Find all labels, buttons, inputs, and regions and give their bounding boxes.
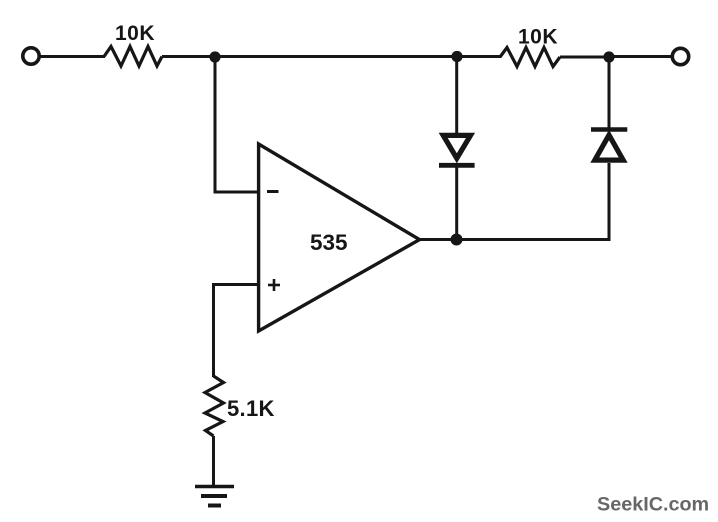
svg-text:SeekIC.com: SeekIC.com bbox=[597, 494, 709, 516]
svg-text:5.1K: 5.1K bbox=[227, 396, 275, 421]
plus sign (non-inverting input) bbox=[268, 279, 280, 291]
resistor R3 (5.1K, vertical) bbox=[205, 376, 224, 436]
wire: input terminal to resistor R1 bbox=[40, 55, 105, 58]
wire: node C down to diode D2 bbox=[608, 57, 611, 130]
wire: diode D1 to node D bbox=[455, 165, 458, 240]
wire: R2 to node C bbox=[560, 56, 609, 59]
node A (junction dot, top left) bbox=[209, 51, 220, 62]
resistor R2 (10K, horizontal) bbox=[500, 48, 560, 67]
wire: node D to right corner under D2 bbox=[457, 163, 610, 240]
svg-text:535: 535 bbox=[310, 230, 348, 255]
diode D2 (pointing up) bbox=[591, 130, 627, 161]
wire: R3 to ground bbox=[212, 436, 215, 486]
diode D1 (pointing down) bbox=[439, 135, 475, 165]
wire: node C to output terminal bbox=[609, 55, 672, 58]
svg-text:10K: 10K bbox=[518, 26, 558, 49]
wire: op-amp output to node D bbox=[420, 238, 457, 241]
wire: node A down to inverting input bbox=[215, 57, 258, 193]
wire: non-inverting input left and down bbox=[214, 285, 259, 378]
wire: node B down to diode D1 bbox=[455, 57, 458, 135]
wire: node B to resistor R2 bbox=[457, 55, 501, 58]
op-amp U1 triangle bbox=[259, 144, 420, 331]
input terminal (left) bbox=[23, 48, 39, 64]
minus sign (inverting input) bbox=[267, 190, 279, 193]
node B (junction dot) bbox=[451, 51, 462, 62]
output terminal (right) bbox=[672, 48, 688, 64]
wire: R1 to node A bbox=[162, 55, 215, 58]
ground bbox=[195, 487, 234, 506]
svg-text:10K: 10K bbox=[115, 22, 155, 45]
wire: node A to node B (top horizontal) bbox=[215, 55, 457, 58]
node D (junction dot at output) bbox=[451, 234, 463, 246]
resistor R1 (10K, horizontal) bbox=[104, 47, 162, 67]
node C (junction dot, top right) bbox=[603, 51, 614, 62]
